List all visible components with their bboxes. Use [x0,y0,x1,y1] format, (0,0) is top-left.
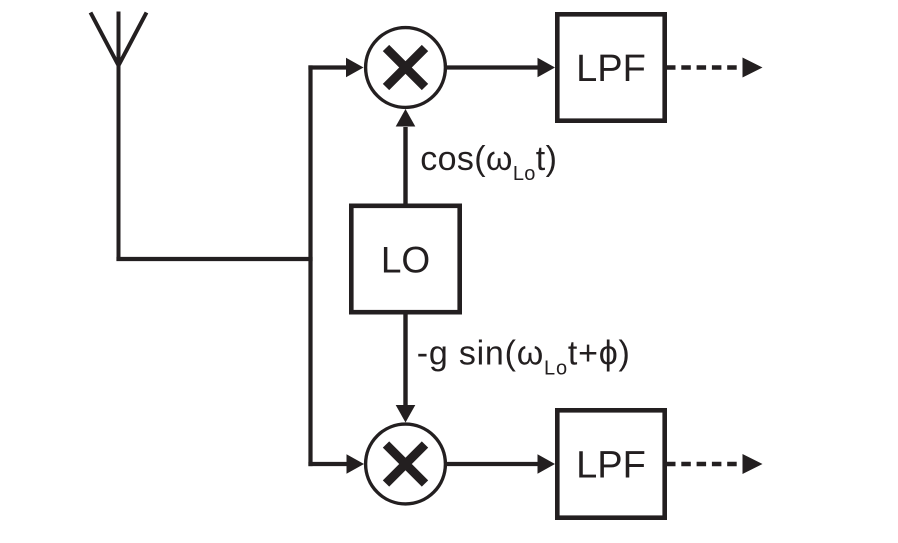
wire: vertical trunk [308,65,312,466]
svg-text:cos(ωLot): cos(ωLot) [420,140,557,185]
block LPF (I channel) [557,14,664,120]
svg-text:-g sin(ωLot+ϕ): -g sin(ωLot+ϕ) [417,335,631,380]
wire: mixer M1 to LPF [445,65,539,69]
wire: LO down to mixer M2 [403,313,407,405]
wire: LO up to mixer M1 [403,127,407,205]
wire: mixer M2 to LPF [445,462,539,466]
svg-text:LPF: LPF [576,48,646,90]
svg-text:LO: LO [381,240,430,281]
block LPF (Q channel) [557,410,664,517]
mixer M1 (top) [366,28,446,108]
wire: top branch into mixer M1 [308,65,347,69]
wire: bottom branch into mixer M2 [308,462,347,466]
svg-text:LPF: LPF [576,445,646,487]
wire: antenna feed to trunk [116,257,312,261]
mixer M2 (bottom) [366,424,446,504]
dashed output arrow (Q) [666,454,763,474]
dashed output arrow (I) [666,58,763,78]
antenna [91,12,147,262]
block LO [351,206,459,312]
